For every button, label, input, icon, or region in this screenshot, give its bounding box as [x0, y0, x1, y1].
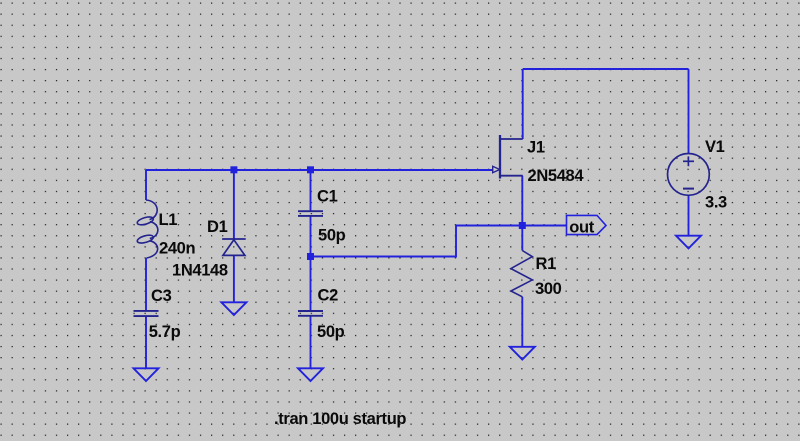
transistor J1 (njf) [493, 135, 523, 179]
wire C1 bottom to node [310, 216, 312, 256]
wire V1 bottom lead [688, 195, 690, 236]
svg-text:C3: C3 [151, 287, 172, 305]
wire out node to flag [522, 225, 566, 227]
voltage source V1 [668, 154, 710, 196]
wire C2 bottom to ground [310, 316, 312, 368]
capacitor C1 [298, 211, 323, 216]
ground C2 [298, 368, 323, 381]
svg-text:300: 300 [535, 280, 562, 298]
wire left column top lead (L1 top) [145, 170, 147, 200]
wire top rail to V1 [523, 68, 689, 70]
svg-text:out: out [569, 218, 594, 236]
wire JFET source vertical to out node [521, 176, 523, 226]
svg-text:D1: D1 [207, 218, 228, 236]
capacitor C3 [134, 311, 159, 316]
node junction (C1 top / gate net) [307, 166, 314, 173]
wire JFET drain vertical [522, 69, 524, 139]
wire top horizontal net (gate net) [146, 169, 492, 171]
svg-text:C1: C1 [317, 187, 338, 205]
diode D1 [222, 239, 246, 255]
ground D1 [221, 302, 246, 315]
ground V1 [676, 236, 701, 249]
net flag out [567, 215, 607, 236]
wire L1 bottom to C3 [145, 258, 147, 310]
resistor R1 [511, 251, 532, 297]
node junction (C1-C2 mid net) [307, 253, 314, 260]
inductor L1 [136, 200, 157, 258]
capacitor C2 [298, 311, 323, 316]
node junction (D1 / gate net) [230, 166, 237, 173]
wire C1 top lead [310, 170, 312, 211]
wire R1 top lead [521, 226, 523, 251]
wire R1 bottom lead to ground [521, 297, 523, 347]
wire V1 top lead [688, 69, 690, 154]
svg-text:2N5484: 2N5484 [528, 167, 585, 185]
wire C3 to ground [145, 317, 147, 368]
svg-text:C2: C2 [318, 287, 339, 305]
svg-text:1N4148: 1N4148 [172, 262, 228, 280]
ground C3 [134, 368, 159, 381]
svg-text:L1: L1 [159, 211, 178, 229]
svg-text:J1: J1 [527, 138, 545, 156]
wire mid net from C2 node up to source node [311, 226, 523, 257]
wire D1 bottom lead to ground [233, 255, 235, 302]
wire C2 top lead [310, 257, 312, 311]
svg-text:R1: R1 [536, 255, 557, 273]
svg-text:240n: 240n [159, 239, 195, 257]
svg-text:50p: 50p [317, 323, 345, 341]
ground R1 [510, 347, 535, 360]
node junction (source / out / R1) [519, 222, 526, 229]
svg-text:50p: 50p [318, 227, 346, 245]
svg-text:.tran 100u startup: .tran 100u startup [274, 410, 406, 428]
svg-text:V1: V1 [705, 138, 725, 156]
svg-text:5.7p: 5.7p [149, 323, 181, 341]
svg-text:3.3: 3.3 [705, 194, 727, 212]
wire D1 top lead [233, 170, 235, 239]
